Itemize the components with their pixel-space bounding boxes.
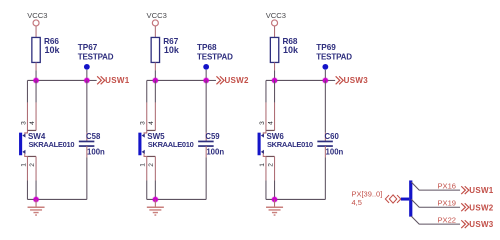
wire: capacitor bottom to ground row [324, 146, 326, 199]
resistor R67 10k [151, 37, 180, 62]
svg-text:10k: 10k [164, 45, 180, 55]
junction at resistor/R67 column [152, 77, 159, 84]
ground symbol [28, 199, 45, 215]
svg-text:SKRAALE010: SKRAALE010 [148, 140, 194, 149]
wire: resistor bottom lead to junction row [35, 62, 37, 80]
bus ripper wire to PX19 [411, 199, 460, 207]
svg-text:C58: C58 [86, 132, 101, 141]
testpad TP69 TESTPAD [316, 43, 352, 70]
wire: testpad column down to capacitor [86, 80, 88, 141]
switch SW6 SKRAALE010 (pushbutton) [258, 130, 313, 156]
svg-text:USW2: USW2 [469, 203, 494, 212]
svg-text:4: 4 [267, 121, 274, 125]
testpad TP67 TESTPAD [78, 43, 114, 70]
wire: testpad to junction [324, 70, 326, 81]
wire: bottom horizontal net row y=199 [266, 198, 325, 200]
svg-text:TP68: TP68 [197, 43, 217, 52]
svg-text:C59: C59 [205, 132, 220, 141]
svg-text:SKRAALE010: SKRAALE010 [267, 140, 313, 149]
svg-text:VCC3: VCC3 [266, 11, 286, 20]
svg-text:TESTPAD: TESTPAD [197, 53, 233, 62]
switch SW5 SKRAALE010 (pushbutton) [138, 130, 193, 156]
svg-text:3: 3 [259, 121, 266, 125]
svg-text:USW1: USW1 [469, 186, 494, 195]
wire: switch pin 4 net [35, 80, 37, 130]
resistor R68 10k [270, 37, 299, 62]
wire: resistor bottom lead to junction row [154, 62, 156, 80]
svg-text:TP69: TP69 [316, 43, 336, 52]
bus port symbol (diamond) [385, 195, 400, 203]
svg-text:PX16: PX16 [437, 182, 456, 191]
wire: switch pin 2 to ground row [274, 156, 276, 199]
svg-text:VCC3: VCC3 [27, 11, 47, 20]
wire: switch pin 4 net [274, 80, 276, 130]
wire: switch pin 1 to ground row [146, 156, 148, 199]
resistor R66 10k [32, 37, 61, 62]
bus ripper wire to PX22 [411, 216, 460, 224]
capacitor C59 100n [198, 132, 224, 157]
switch SW4 SKRAALE010 (pushbutton) [19, 130, 74, 156]
svg-text:1: 1 [20, 163, 27, 167]
port USW3 (right side) [461, 220, 494, 229]
svg-text:1: 1 [140, 163, 147, 167]
wire: horizontal net row y=80 [27, 79, 96, 81]
svg-text:USW3: USW3 [469, 220, 494, 229]
wire: switch pin 1 to ground row [265, 156, 267, 199]
svg-text:10k: 10k [283, 45, 299, 55]
port USW1 (right-pointing double chevron) [97, 76, 130, 85]
wire: switch pin 4 net [154, 80, 156, 130]
wire: bottom horizontal net row y=199 [147, 198, 206, 200]
wire: switch pin 2 to ground row [35, 156, 37, 199]
bus ripper wire to PX16 [411, 182, 460, 190]
capacitor C60 100n [317, 132, 343, 157]
svg-text:TESTPAD: TESTPAD [316, 53, 352, 62]
wire: capacitor bottom to ground row [205, 146, 207, 199]
svg-text:3: 3 [140, 121, 147, 125]
port USW2 (right-pointing double chevron) [216, 76, 249, 85]
wire: testpad column down to capacitor [205, 80, 207, 141]
wire: switch pin 3 net [146, 80, 148, 130]
power symbol VCC3 (R66 circuit) [27, 11, 47, 37]
wire: capacitor bottom to ground row [86, 146, 88, 199]
svg-text:100n: 100n [87, 148, 105, 157]
junction at testpad column [322, 77, 329, 84]
junction at ground [271, 196, 278, 203]
wire: switch pin 3 net [26, 80, 28, 130]
ground symbol [147, 199, 164, 215]
svg-text:10k: 10k [45, 45, 61, 55]
junction at ground [33, 196, 40, 203]
svg-text:2: 2 [267, 163, 274, 167]
junction at testpad column [203, 77, 210, 84]
wire: bottom horizontal net row y=199 [27, 198, 86, 200]
wire: testpad column down to capacitor [324, 80, 326, 141]
junction at testpad column [84, 77, 91, 84]
port USW1 (right side) [461, 186, 494, 195]
svg-text:USW3: USW3 [344, 76, 369, 85]
wire: horizontal net row y=80 [147, 79, 216, 81]
svg-text:4,5: 4,5 [351, 198, 361, 207]
wire: switch pin 3 net [265, 80, 267, 130]
svg-text:100n: 100n [206, 148, 224, 157]
bus stub: port to bus bar [401, 198, 409, 201]
svg-text:4: 4 [148, 121, 155, 125]
svg-text:4: 4 [29, 121, 36, 125]
svg-text:SKRAALE010: SKRAALE010 [28, 140, 74, 149]
junction at resistor/R66 column [33, 77, 40, 84]
svg-text:3: 3 [20, 121, 27, 125]
power symbol VCC3 (R68 circuit) [266, 11, 286, 37]
power symbol VCC3 (R67 circuit) [147, 11, 167, 37]
port USW3 (right-pointing double chevron) [336, 76, 369, 85]
svg-text:TESTPAD: TESTPAD [78, 53, 114, 62]
svg-text:2: 2 [148, 163, 155, 167]
svg-text:VCC3: VCC3 [147, 11, 167, 20]
junction at ground [152, 196, 159, 203]
wire: switch pin 1 to ground row [26, 156, 28, 199]
svg-text:PX19: PX19 [437, 199, 456, 208]
wire: switch pin 2 to ground row [154, 156, 156, 199]
testpad TP68 TESTPAD [197, 43, 233, 70]
svg-text:PX22: PX22 [437, 216, 456, 225]
capacitor C58 100n [79, 132, 105, 157]
wire: horizontal net row y=80 [266, 79, 335, 81]
svg-text:C60: C60 [325, 132, 340, 141]
svg-text:USW1: USW1 [105, 76, 130, 85]
port USW2 (right side) [461, 203, 494, 212]
svg-text:2: 2 [29, 163, 36, 167]
wire: resistor bottom lead to junction row [274, 62, 276, 80]
wire: testpad to junction [205, 70, 207, 81]
junction at resistor/R68 column [271, 77, 278, 84]
bus PX (vertical blue bar) [409, 180, 412, 216]
svg-text:1: 1 [259, 163, 266, 167]
svg-text:100n: 100n [326, 148, 344, 157]
wire: testpad to junction [86, 70, 88, 81]
ground symbol [266, 199, 283, 215]
svg-text:USW2: USW2 [224, 76, 249, 85]
svg-text:TP67: TP67 [78, 43, 98, 52]
